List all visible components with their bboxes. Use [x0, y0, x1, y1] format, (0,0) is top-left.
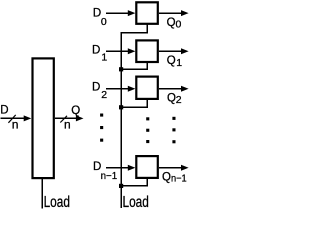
wire Q1 output — [159, 50, 182, 52]
svg-text:0: 0 — [176, 19, 182, 31]
flip-flop FF1 (bit 1) — [136, 40, 158, 62]
wire FF1 load stub — [122, 63, 147, 69]
svg-text:n: n — [12, 117, 19, 131]
svg-text:n−1: n−1 — [171, 173, 187, 185]
wire Q output bus — [55, 117, 77, 119]
wire D0 input — [106, 12, 128, 14]
svg-text:n−1: n−1 — [101, 171, 118, 182]
svg-text:D: D — [0, 105, 8, 117]
flip-flop FF3 (bit n-1) — [136, 156, 158, 178]
svg-text:Load: Load — [44, 192, 70, 209]
svg-text:1: 1 — [176, 57, 182, 69]
svg-text:D: D — [92, 44, 100, 56]
arrowhead into register — [24, 115, 32, 121]
svg-text:1: 1 — [101, 51, 107, 63]
wire Q0 output — [159, 12, 182, 14]
junction dot FF3 stub — [119, 184, 123, 188]
ellipsis dots FF column — [146, 117, 149, 120]
ellipsis dots Q column — [172, 117, 175, 120]
arrowhead Qn-1 output — [181, 165, 189, 171]
svg-text:0: 0 — [101, 16, 107, 28]
arrowhead Q output — [76, 115, 84, 121]
junction dot FF2 stub — [119, 105, 123, 109]
wire D1 input — [106, 50, 128, 52]
wire FF3 load stub — [122, 179, 147, 186]
svg-text:2: 2 — [101, 89, 107, 101]
flip-flop FF2 (bit 2) — [136, 77, 158, 99]
svg-text:Q: Q — [167, 93, 176, 105]
svg-text:D: D — [92, 82, 100, 94]
arrowhead Q1 output — [181, 48, 189, 54]
arrowhead D1 into FF1 — [128, 48, 136, 54]
bus-width slash on D wire — [8, 115, 15, 123]
wire FF2 load stub — [122, 100, 147, 108]
wire load trunk from FF0 to bottom — [121, 25, 147, 208]
junction dot FF1 stub — [119, 67, 123, 71]
svg-text:n: n — [64, 117, 71, 131]
arrowhead Dn-1 into FF3 — [128, 165, 136, 171]
flip-flop FF0 (bit 0) — [136, 2, 158, 24]
wire Dn-1 input — [106, 167, 128, 169]
svg-text:Q: Q — [167, 55, 176, 67]
wire D2 input — [106, 88, 128, 90]
svg-text:2: 2 — [176, 94, 182, 106]
arrowhead D2 into FF2 — [128, 86, 136, 92]
svg-text:Q: Q — [71, 105, 80, 117]
svg-text:Q: Q — [167, 17, 176, 29]
wire Qn-1 output — [159, 167, 182, 169]
svg-text:Q: Q — [162, 172, 171, 184]
wire D input bus — [1, 117, 26, 119]
wire Load (register load control) — [41, 179, 43, 208]
register U1 (n-bit register body) — [33, 58, 54, 178]
wire Q2 output — [159, 88, 182, 90]
arrowhead Q0 output — [181, 10, 189, 16]
arrowhead D0 into FF0 — [128, 10, 136, 16]
svg-text:Load: Load — [123, 192, 149, 209]
bus-width slash on Q wire — [60, 116, 67, 123]
arrowhead Q2 output — [181, 86, 189, 92]
ellipsis dots D column — [100, 114, 103, 117]
